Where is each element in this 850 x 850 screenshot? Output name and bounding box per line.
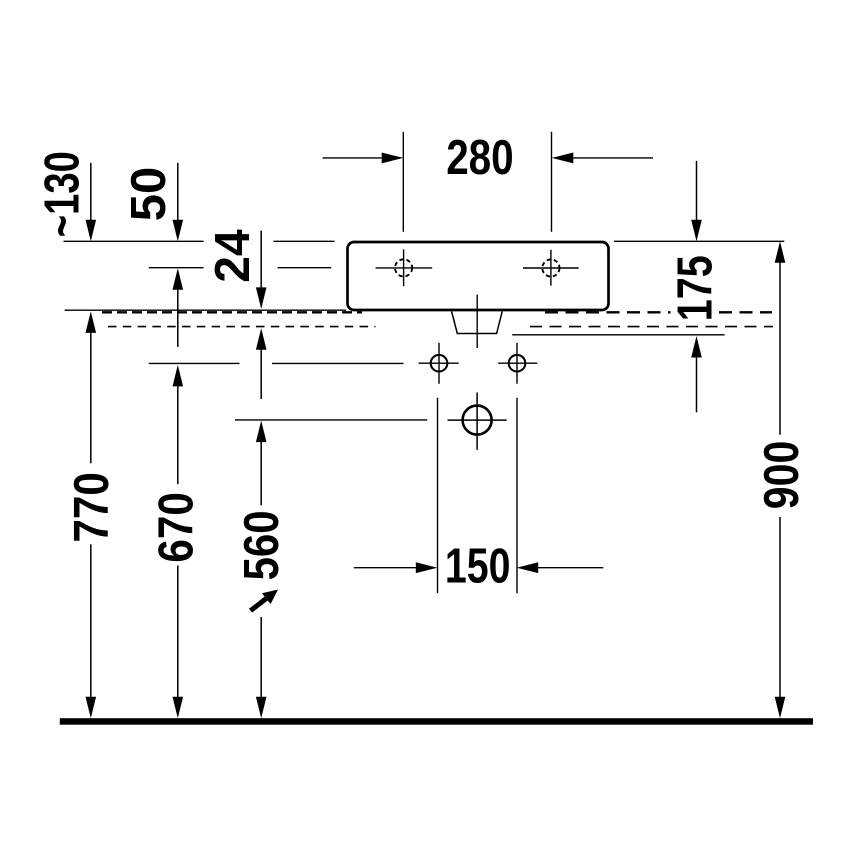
dim line 280 right <box>560 157 653 159</box>
fixing hole right vertical <box>516 343 518 384</box>
svg-text:670: 670 <box>150 492 204 563</box>
extension line 280 left <box>402 132 404 232</box>
tap cross left vertical <box>403 249 405 286</box>
tap cross left horizontal <box>376 267 433 269</box>
dim 24 shaft lower <box>260 348 262 399</box>
console top thin line <box>65 309 346 311</box>
arrowhead 175 up <box>691 336 702 358</box>
line level 268 left <box>149 267 204 269</box>
dim 770 shaft upper <box>90 330 92 463</box>
svg-text:50: 50 <box>122 167 176 222</box>
svg-text:560: 560 <box>235 510 289 580</box>
dim line 150 right <box>527 567 603 569</box>
arrowhead 24 up <box>256 328 267 350</box>
arrowhead 670 down floor <box>173 697 184 719</box>
svg-text:150: 150 <box>445 540 511 594</box>
dim line 150 left <box>354 567 427 569</box>
arrowhead 900 up <box>775 241 786 262</box>
tap cross right vertical <box>550 250 552 286</box>
dim 175 shaft lower <box>696 355 698 412</box>
fixing hole left vertical <box>438 343 440 384</box>
extension line 280 right <box>551 132 553 232</box>
dim 770 shaft lower <box>90 544 92 698</box>
svg-text:24: 24 <box>206 229 260 282</box>
direction arrow near 560 <box>251 590 279 611</box>
heavy dashed line mid <box>545 311 671 313</box>
dim 670 shaft upper <box>177 384 179 484</box>
arrowhead 175 down <box>691 220 702 242</box>
svg-text:175: 175 <box>669 255 723 321</box>
arrowhead 770 down floor <box>86 697 97 719</box>
dim 50 shaft top <box>177 163 179 222</box>
line level 335 right <box>512 334 724 336</box>
tap cross right horizontal <box>523 267 579 269</box>
dim 900 shaft lower <box>779 517 781 698</box>
dim 130 shaft top <box>90 163 92 222</box>
line level 363 left <box>149 362 240 364</box>
fixing hole left horizontal <box>419 362 459 364</box>
dim 560 shaft upper <box>260 440 262 505</box>
fixing hole right circle <box>509 355 526 372</box>
heavy dashed line left <box>102 311 362 313</box>
fixing hole left circle <box>431 355 448 372</box>
svg-text:~130: ~130 <box>35 151 89 237</box>
svg-text:770: 770 <box>65 472 119 542</box>
light dashed line left <box>108 326 376 328</box>
arrowhead 50 down <box>173 220 184 242</box>
arrowhead 50 up <box>173 268 184 290</box>
extension line 150 left <box>437 398 439 593</box>
drain hole horizontal <box>448 419 507 421</box>
dim 50 lower shaft <box>177 288 179 347</box>
tap cross right dashed circle <box>542 259 559 276</box>
tap cross left dashed circle <box>395 259 412 276</box>
line level 241 mid <box>274 240 335 242</box>
drain centerline <box>476 295 478 349</box>
arrowhead 280 right <box>382 152 404 163</box>
line level 420 <box>235 419 427 421</box>
arrowhead 150 right <box>416 562 438 573</box>
dim 175 shaft top <box>696 161 698 222</box>
dim line 280 left <box>323 157 394 159</box>
extension line 150 right <box>516 398 518 593</box>
dim 560 shaft lower <box>260 617 262 698</box>
drain hole circle <box>463 406 492 435</box>
arrowhead 130 down <box>86 220 97 242</box>
fixing hole right horizontal <box>498 362 537 364</box>
line level 268 right <box>278 267 332 269</box>
arrowhead 24 down <box>256 287 267 309</box>
heavy dashed line right <box>719 311 772 313</box>
line level 241 right <box>614 240 784 242</box>
light dashed line right <box>530 326 773 328</box>
drain trapezoid <box>452 312 503 334</box>
line level 241 left <box>64 240 204 242</box>
arrowhead 150 left <box>517 562 539 573</box>
dim 670 shaft lower <box>177 566 179 699</box>
svg-text:900: 900 <box>755 441 809 510</box>
dim 24 shaft upper <box>260 231 262 289</box>
arrowhead 560 up <box>256 421 267 443</box>
line level 363 right <box>272 362 404 364</box>
arrowhead 280 left <box>552 152 574 163</box>
arrowhead 670 up <box>173 365 184 387</box>
svg-text:280: 280 <box>446 131 514 185</box>
dim 900 shaft upper <box>779 260 781 435</box>
floor line <box>60 718 813 725</box>
basin outline <box>348 242 609 310</box>
arrowhead 770 up <box>86 311 97 333</box>
arrowhead 560 down floor <box>256 697 267 719</box>
drain hole vertical <box>476 393 478 450</box>
arrowhead 900 down floor <box>775 697 786 719</box>
